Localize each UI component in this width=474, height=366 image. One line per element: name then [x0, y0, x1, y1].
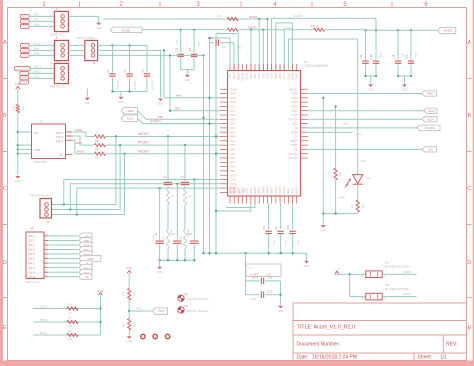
svg-text:C17: C17 [208, 36, 214, 40]
resistor R17 gray lower [180, 230, 187, 261]
svg-text:R18: R18 [329, 171, 332, 176]
wire AZOUT drop to J4 row [52, 135, 118, 204]
wire LED net from U3 top [288, 39, 365, 175]
svg-text:GND: GND [126, 339, 132, 343]
wire net AYOUT to U3 [106, 141, 220, 145]
svg-text:C2: C2 [123, 69, 127, 73]
wire AVDD top-right rail [325, 29, 438, 31]
svg-text:CLK1: CLK1 [243, 187, 245, 193]
svg-text:C19: C19 [268, 277, 273, 280]
supply 3.3V divider [126, 266, 132, 288]
capacitor C6 with resistor R5 [181, 144, 191, 230]
svg-text:ADXL335: ADXL335 [33, 160, 46, 164]
svg-text:RESV: RESV [259, 187, 261, 194]
svg-text:DGND: DGND [234, 186, 236, 193]
svg-text:GND: GND [84, 277, 89, 279]
resistor R3 [95, 149, 106, 160]
title block REV divider [442, 335, 444, 353]
svg-text:DAISY_I: DAISY_I [289, 88, 298, 91]
wire EC1 row [150, 119, 220, 123]
capacitor C16 [393, 30, 405, 76]
net flag EC10 [121, 115, 137, 122]
test pads TP1 [20, 14, 29, 28]
ground symbol divider [127, 336, 132, 339]
svg-text:VS: VS [34, 131, 38, 135]
capacitor C10 [287, 204, 299, 254]
capacitor C22 [188, 178, 199, 260]
wire CS big flag [308, 127, 417, 129]
fiducial pads [141, 334, 170, 338]
svg-text:0.1uF: 0.1uF [252, 277, 259, 280]
svg-text:J4: J4 [47, 220, 51, 224]
svg-text:101-1: 101-1 [28, 235, 35, 238]
svg-text:IN7N: IN7N [230, 158, 236, 160]
net flag START [79, 256, 101, 262]
ground symbol C12 C14 [368, 84, 373, 87]
svg-text:GPID: GPID [247, 188, 249, 194]
frame row ticks left [3, 78, 8, 80]
wire J1 pin 5 [48, 253, 78, 255]
svg-text:AVDD: AVDD [275, 73, 278, 80]
svg-text:BLM18BA050SN1D: BLM18BA050SN1D [385, 287, 410, 291]
wire J1 pin 7 [48, 262, 78, 264]
wire R15 to ground [128, 330, 130, 335]
net flag SCLK [422, 117, 437, 122]
frame right border line [473, 0, 474, 366]
svg-text:AVD1: AVD1 [287, 187, 290, 194]
wire J1 pin 1 [48, 235, 78, 237]
wire net through x160.5 [98, 50, 161, 97]
wire DIN to flag [308, 148, 422, 150]
svg-text:101-2: 101-2 [28, 240, 35, 243]
net flag PULL [153, 308, 168, 314]
svg-text:IN4 3: IN4 3 [255, 72, 257, 78]
title block row lines [293, 320, 467, 322]
wire WCT stub [308, 132, 362, 136]
wire crystal right rail to ground [279, 281, 281, 305]
svg-text:101-3: 101-3 [28, 244, 35, 247]
svg-text:IN4 1: IN4 1 [251, 72, 253, 78]
wire XOUT to R1 [72, 129, 94, 137]
svg-text:WCT: WCT [237, 46, 244, 50]
svg-text:AYOUT: AYOUT [138, 141, 149, 145]
net flag GND [79, 274, 92, 280]
wire J1 pin 8 [48, 267, 78, 269]
svg-text:0.1uF: 0.1uF [272, 240, 275, 247]
svg-text:C20: C20 [268, 290, 273, 293]
svg-text:D: D [467, 260, 471, 266]
capacitor C12 [360, 30, 372, 76]
svg-text:TSTM: TSTM [230, 184, 236, 186]
svg-text:1uF: 1uF [222, 46, 227, 49]
ground symbol bottom bus [304, 253, 310, 268]
svg-text:R13: R13 [13, 106, 16, 111]
svg-text:IN1P: IN1P [230, 111, 236, 113]
svg-text:CLKSL: CLKSL [288, 72, 290, 80]
svg-text:0.1uF: 0.1uF [414, 52, 417, 59]
svg-text:COM: COM [34, 148, 40, 152]
resistor R10 [217, 28, 238, 35]
svg-text:AGND: AGND [283, 187, 286, 194]
wire R13 to GND rail [17, 113, 32, 175]
svg-text:C22: C22 [188, 234, 193, 236]
ground symbol x160 [158, 99, 163, 102]
wire AYOUT drop to J4 row [52, 144, 122, 210]
wire pads to header J4 [29, 65, 54, 79]
svg-text:C11: C11 [175, 47, 178, 52]
net flag RST [79, 269, 92, 275]
ground symbol C11 C13 [185, 75, 190, 78]
resistor R8 [67, 330, 78, 341]
svg-text:IN8P: IN8P [230, 171, 236, 173]
wire pads to header J3 [29, 42, 54, 56]
svg-text:1000pF: 1000pF [116, 81, 119, 90]
svg-text:AVS1: AVS1 [292, 187, 295, 193]
capacitor C17 [208, 36, 234, 71]
svg-text:1uF: 1uF [175, 40, 178, 45]
svg-text:B: B [3, 113, 7, 119]
svg-text:4: 4 [56, 59, 58, 63]
net flag DVDD top right [438, 28, 456, 34]
svg-text:IN5P: IN5P [230, 145, 236, 147]
svg-text:TSTP: TSTP [230, 180, 236, 182]
wire J1 pin 2 [48, 239, 78, 241]
svg-text:MISO: MISO [40, 318, 48, 322]
svg-text:DVD2: DVD2 [297, 72, 299, 79]
svg-text:GND: GND [158, 102, 164, 106]
capacitor C18 [406, 30, 418, 76]
ferrite bead FB2 [362, 283, 409, 300]
wire crystal left rail [245, 253, 247, 295]
svg-text:WCT1: WCT1 [230, 175, 237, 177]
mount hole H3 [178, 305, 209, 313]
wire pullup row SCLK [33, 304, 101, 308]
svg-text:R14: R14 [123, 291, 126, 296]
svg-text:DVDD: DVDD [444, 29, 452, 33]
svg-text:C12: C12 [360, 54, 363, 59]
wire pullup row MISO [33, 318, 101, 322]
pin header J4 [30, 193, 52, 224]
svg-text:Accel_V1.0_R2.0: Accel_V1.0_R2.0 [314, 324, 356, 330]
resistor R2 [95, 140, 106, 151]
svg-text:CLK: CLK [294, 137, 299, 139]
wire branch J4 row1 to U3 row [63, 180, 220, 206]
svg-text:YOUT: YOUT [56, 135, 64, 139]
svg-text:DGND_2: DGND_2 [289, 158, 299, 160]
svg-text:AVSS: AVSS [279, 73, 282, 79]
net flag AZ01 [121, 107, 137, 114]
svg-text:C16: C16 [393, 54, 396, 59]
wire J1 pin 9 [48, 271, 78, 273]
svg-text:AVDD1: AVDD1 [249, 15, 259, 19]
svg-text:2: 2 [56, 7, 58, 11]
svg-text:101-9: 101-9 [28, 271, 35, 274]
wire net to C1-C3 tops [98, 44, 147, 46]
wire LED bottom rail [322, 212, 358, 224]
capacitor C13 [189, 30, 200, 70]
node 1.65V label [342, 123, 349, 126]
U3 bottom pins [230, 185, 299, 203]
svg-text:330: 330 [361, 204, 364, 209]
svg-text:DRDY_N: DRDY_N [289, 119, 299, 121]
svg-text:DRDY: DRDY [427, 93, 434, 96]
svg-text:DOUT: DOUT [428, 110, 435, 113]
svg-text:3: 3 [56, 36, 58, 40]
svg-text:SCLK: SCLK [292, 124, 298, 126]
net flag DRDY [79, 265, 92, 271]
supply 3.3V pullups [98, 289, 104, 335]
svg-text:PROG/TVBSM: PROG/TVBSM [30, 193, 49, 197]
svg-text:RX0: RX0 [34, 13, 40, 17]
svg-text:IN1N: IN1N [230, 107, 236, 109]
svg-text:WCT: WCT [356, 132, 363, 136]
svg-text:GND: GND [278, 309, 284, 313]
svg-text:GND: GND [402, 88, 408, 92]
svg-text:GPIO2: GPIO2 [291, 107, 299, 109]
svg-text:VCA1: VCA1 [283, 72, 286, 79]
wire AVDD0 rail [142, 26, 314, 71]
wire pullup row MOSI [33, 331, 101, 335]
capacitor C8 [263, 204, 275, 254]
resistor R6 [67, 303, 78, 314]
svg-text:RAW2: RAW2 [77, 150, 85, 153]
connector J1 body [26, 226, 48, 284]
svg-text:IN4N: IN4N [230, 132, 236, 134]
wire divider mid [128, 300, 153, 318]
mount hole H2 [178, 293, 209, 301]
test pads TP7 [15, 67, 31, 85]
svg-text:IN5 P: IN5 P [259, 73, 261, 79]
svg-text:BLM18BA050SN1D: BLM18BA050SN1D [385, 264, 410, 268]
svg-text:0.1uF: 0.1uF [379, 52, 382, 59]
capacitor C14 [371, 30, 383, 76]
svg-text:AVDD: AVDD [403, 270, 411, 274]
wire DRDY to flag [308, 93, 422, 95]
svg-text:DIN: DIN [428, 149, 432, 152]
wire vertical right of U3 a [322, 97, 324, 214]
junctions on columns [202, 97, 217, 155]
svg-text:C: C [3, 186, 7, 192]
pin header J3 [50, 36, 68, 66]
svg-text:C13: C13 [189, 47, 192, 52]
svg-text:10/16/2018 2:04 PM: 10/16/2018 2:04 PM [312, 355, 357, 361]
svg-text:101-5: 101-5 [28, 253, 35, 256]
svg-text:IN5N: IN5N [230, 141, 236, 143]
frame row ticks right [467, 78, 472, 80]
capacitor C19 [246, 277, 281, 285]
capacitor C1 [106, 45, 119, 91]
resistor R14 [123, 288, 136, 300]
svg-text:U2: U2 [40, 120, 44, 124]
net flag GND [79, 238, 92, 244]
wire pads to header J2 [29, 13, 54, 27]
capacitor C9 [275, 204, 287, 254]
wire column x209.5 with branch from U3 pin [208, 37, 230, 253]
U3 right pins [289, 88, 308, 160]
svg-text:IN6 P: IN6 P [268, 73, 270, 79]
bus wire analog filter ground [158, 259, 195, 261]
net flag DRDY [422, 91, 437, 96]
svg-text:GND: GND [84, 101, 90, 105]
svg-text:A: A [3, 40, 7, 46]
svg-text:IN7P: IN7P [230, 162, 236, 164]
LED U5 [345, 175, 371, 188]
svg-text:104: 104 [180, 235, 183, 240]
svg-text:J1: J1 [31, 226, 35, 230]
svg-text:1000pF: 1000pF [150, 81, 153, 90]
svg-text:ST: ST [60, 153, 64, 157]
svg-text:C3: C3 [141, 69, 145, 73]
net flag MISO [79, 247, 92, 253]
resistor R9 [351, 200, 364, 212]
svg-text:R15: R15 [123, 322, 126, 327]
U3 left pins [220, 89, 237, 194]
svg-text:CS/CL: CS/CL [34, 65, 42, 69]
wire R9 to rail [357, 212, 359, 214]
svg-text:E: E [467, 325, 471, 331]
wire stub to ground below J5 [86, 89, 88, 98]
svg-text:1/1: 1/1 [440, 355, 447, 361]
svg-text:REV:: REV: [446, 342, 457, 348]
pin header J4 [50, 59, 68, 89]
svg-text:XOUT: XOUT [56, 131, 64, 135]
svg-text:RLDM: RLDM [230, 98, 237, 100]
wire C11 C13 join to ground [181, 70, 194, 75]
svg-text:U5: U5 [366, 176, 370, 180]
svg-text:ADS1298IPAGR: ADS1298IPAGR [305, 64, 329, 68]
frame column ticks top [79, 2, 81, 8]
svg-text:IN4P: IN4P [230, 137, 236, 139]
svg-text:IN6P: IN6P [230, 154, 236, 156]
svg-text:C18: C18 [406, 54, 409, 59]
ground symbol analog filter bus [157, 260, 163, 274]
svg-text:E: E [3, 325, 7, 331]
net flag VDD [79, 233, 92, 239]
resistor R15 [123, 319, 136, 331]
svg-text:SCLK: SCLK [40, 304, 47, 308]
svg-text:Sheet:: Sheet: [418, 355, 432, 361]
svg-text:A: A [467, 40, 471, 46]
wire YOUT to R2 [72, 136, 94, 145]
wire FB1 to AVDD label [382, 270, 416, 274]
svg-text:DVD1: DVD1 [251, 187, 253, 194]
svg-text:AVS2: AVS2 [296, 187, 299, 193]
wire AZ01 diagonal to P80 row [138, 106, 221, 119]
svg-text:101-10: 101-10 [28, 276, 36, 279]
svg-text:MISO: MISO [34, 70, 41, 74]
wire CLKSEL row [284, 24, 318, 71]
svg-text:IN6N: IN6N [230, 150, 236, 152]
svg-text:PINHD-1X3: PINHD-1X3 [50, 33, 65, 37]
svg-text:PROG/TVBSM: PROG/TVBSM [76, 36, 95, 40]
wire AXOUT drop to J4 row [52, 153, 126, 215]
net flag SCL-SDA [417, 125, 440, 131]
wire VCAP1 outer run to right cluster [272, 14, 376, 71]
svg-text:RAW0: RAW0 [75, 129, 83, 132]
svg-text:GPIO1: GPIO1 [291, 115, 299, 117]
svg-text:EC1: EC1 [155, 119, 161, 123]
node WCT top [237, 46, 244, 50]
resistor R11 [217, 15, 238, 21]
svg-text:GPIO4: GPIO4 [291, 98, 299, 100]
frame left border bar [0, 0, 3, 366]
svg-text:C10: C10 [287, 225, 290, 230]
svg-text:GND: GND [15, 179, 21, 183]
capacitor C4 with resistor R4 [164, 135, 174, 229]
supply 3.3V left [15, 82, 21, 105]
svg-text:PWDN: PWDN [291, 145, 298, 147]
pin header J2 [50, 7, 68, 37]
frame bottom border bar [0, 361, 474, 366]
wire DOUT to flag [308, 110, 424, 112]
svg-text:SMT-xx-10: SMT-xx-10 [26, 280, 40, 284]
svg-text:Date:: Date: [297, 355, 309, 361]
svg-text:IN3P: IN3P [230, 128, 236, 130]
svg-text:RLDRF: RLDRF [243, 72, 245, 80]
svg-text:VREFP: VREFP [263, 185, 265, 193]
U3 lower-left rotated pin labels [232, 186, 246, 194]
wire header J2 pin1 to GND [68, 16, 98, 22]
svg-text:MOUNT HOLES2: MOUNT HOLES2 [187, 297, 209, 301]
svg-text:IN2P: IN2P [230, 119, 236, 121]
svg-text:PWDN: PWDN [230, 89, 237, 91]
resistor R13 [13, 104, 24, 112]
svg-text:TITLE:: TITLE: [297, 324, 313, 330]
svg-text:3.3V: 3.3V [98, 289, 104, 293]
wire bottom ground bus [202, 252, 306, 254]
svg-text:GND: GND [185, 78, 191, 82]
wire vertical right of U3 b with resistor R18 [329, 105, 346, 213]
svg-text:EC10: EC10 [127, 116, 134, 120]
test pads TP4 [20, 43, 29, 57]
svg-text:1000pF: 1000pF [133, 81, 136, 90]
svg-text:SCLK: SCLK [428, 118, 435, 121]
capacitor C11 [175, 30, 184, 70]
title block Sheet divider [413, 353, 415, 361]
svg-text:ZOUT: ZOUT [56, 139, 63, 143]
svg-text:GND: GND [34, 23, 40, 27]
wire U3 bottom left turns [215, 204, 255, 213]
resistor R1 [95, 132, 106, 143]
svg-text:SCL/SDA: SCL/SDA [425, 127, 436, 130]
svg-text:AXOUT: AXOUT [138, 149, 149, 153]
svg-text:VCA3: VCA3 [271, 72, 274, 79]
accelerometer U2 ADXL335 [32, 120, 73, 164]
svg-text:GND: GND [320, 228, 326, 232]
svg-text:DOUT: DOUT [291, 111, 298, 113]
svg-text:DGN2: DGN2 [255, 186, 257, 193]
ground symbol GND top [96, 23, 101, 26]
resistor R16 gray lower [163, 230, 170, 261]
svg-text:GND: GND [34, 52, 40, 56]
net flag CS [79, 260, 92, 266]
svg-text:LED: LED [361, 159, 366, 163]
supply flag AVDD [110, 27, 142, 32]
svg-text:DVDD: DVDD [403, 292, 411, 296]
wire LED to R9 [357, 184, 359, 200]
svg-text:RLDIN: RLDIN [238, 73, 240, 80]
ground symbol below J5 [85, 98, 90, 101]
svg-text:DGND_1: DGND_1 [289, 154, 299, 156]
svg-text:SNFB: SNFB [292, 94, 299, 96]
svg-text:C: C [467, 186, 471, 192]
svg-text:ALDO: ALDO [233, 73, 236, 79]
svg-text:AVDD: AVDD [122, 29, 131, 33]
svg-text:0.1uF: 0.1uF [197, 41, 200, 48]
wire C16 C18 join [397, 75, 412, 84]
svg-text:10uF: 10uF [251, 298, 257, 301]
svg-text:WCT: WCT [230, 72, 232, 78]
